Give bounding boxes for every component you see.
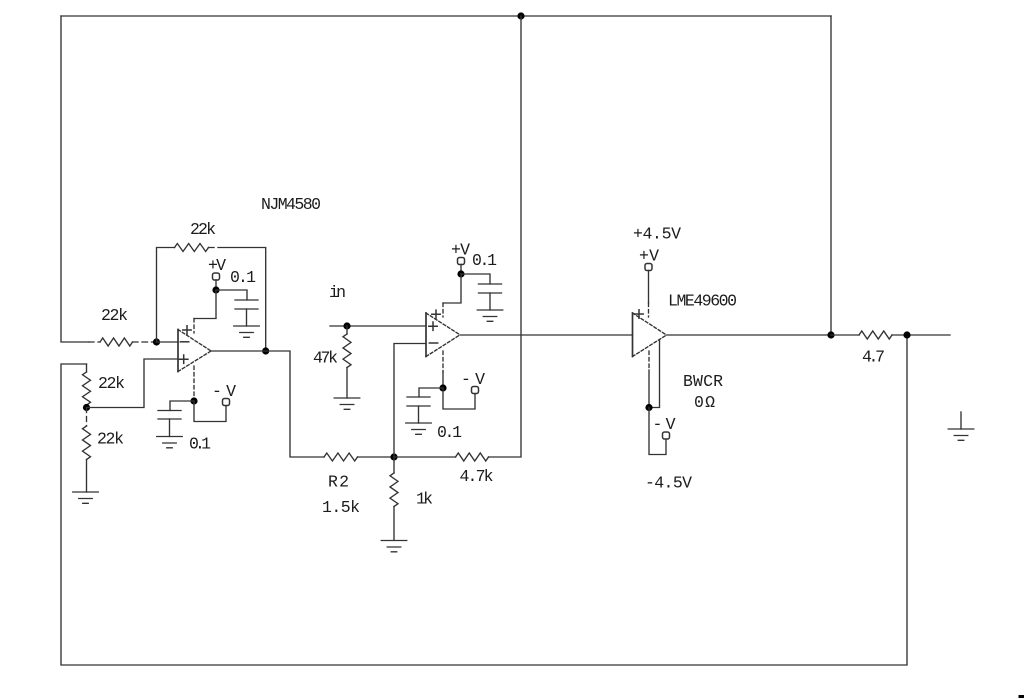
wire feedback lead <box>209 248 266 352</box>
node LME -V <box>645 404 652 411</box>
corner mark <box>1019 695 1024 698</box>
node op1 +V <box>212 286 219 293</box>
port -V LME <box>663 432 670 439</box>
ground output reference <box>960 412 962 429</box>
node R2/1k/4.7k junction <box>390 453 397 460</box>
op-amp U1A NJM4580 <box>177 330 179 372</box>
wire 1k to ground <box>393 507 395 541</box>
resistor 4.7k <box>456 453 489 461</box>
op1 inverting mark <box>180 341 188 343</box>
wire LME BW pin <box>649 340 660 408</box>
svg-text:- V: - V <box>653 415 676 434</box>
wire node to cap C2 <box>170 401 194 411</box>
svg-text:in: in <box>329 283 346 302</box>
op2 supply pin dashed bottom <box>442 351 444 372</box>
wire feedback up <box>157 248 175 343</box>
wire output stub <box>907 334 950 336</box>
op2 non-inverting mark <box>429 322 437 330</box>
node op2 -V <box>439 384 446 391</box>
node op1 output <box>262 347 269 354</box>
LME supply pin dashed bottom <box>648 351 650 370</box>
op1 supply pin dashed bottom <box>193 366 195 401</box>
svg-text:+V: +V <box>639 247 659 266</box>
node input 47k tap <box>343 322 350 329</box>
svg-text:NJM4580: NJM4580 <box>261 195 321 214</box>
op2 V+ mark <box>432 310 440 318</box>
wire dashed divider lead <box>86 408 88 427</box>
node op1 inverting input <box>153 338 160 345</box>
wire to op1 inverting pin <box>157 341 179 343</box>
wire dashed lead right of 22k <box>133 341 157 343</box>
wire to bypass cap C3 <box>461 274 490 284</box>
wire to 4.7 resistor <box>831 334 859 336</box>
wire top feedback bus <box>61 15 831 17</box>
resistor 22k feedback <box>175 244 209 252</box>
wire divider to ground <box>86 460 88 493</box>
wire -V port U <box>443 388 475 409</box>
wire left vertical top to inverting 22k <box>61 16 89 342</box>
ground op1 +V cap <box>234 326 260 337</box>
svg-text:0.1: 0.1 <box>472 251 497 270</box>
capacitor 0.1 op1 -V <box>158 411 181 420</box>
svg-text:0.1: 0.1 <box>437 423 462 442</box>
LME supply pin dashed top <box>648 303 650 317</box>
wire +V to buffer <box>648 271 650 304</box>
resistor 22k divider upper <box>86 364 88 408</box>
svg-text:0.1: 0.1 <box>189 435 211 454</box>
op-amp U1B NJM4580 <box>425 313 427 357</box>
wire port to node <box>460 265 462 275</box>
svg-text:47k: 47k <box>313 349 338 368</box>
svg-text:4.7k: 4.7k <box>460 467 494 486</box>
wire cap to ground <box>489 293 491 310</box>
wire buffer output <box>667 334 832 336</box>
wire node up to op2 inverting <box>394 344 426 458</box>
svg-text:4.7: 4.7 <box>862 348 885 367</box>
wire -V port U <box>194 401 226 422</box>
svg-text:LME49600: LME49600 <box>668 292 737 311</box>
svg-text:22k: 22k <box>190 220 216 239</box>
op1 V+ mark <box>183 326 191 334</box>
node output <box>903 331 910 338</box>
LME V+ mark <box>635 310 643 318</box>
resistor 22k divider lower <box>83 426 91 460</box>
capacitor 0.1 op2 +V <box>479 284 502 293</box>
svg-text:22k: 22k <box>97 430 124 449</box>
svg-text:+V: +V <box>208 256 226 275</box>
wire -V port U <box>649 408 666 455</box>
wire LME -V pin <box>648 370 650 408</box>
wire op2 output to buffer input <box>460 334 633 336</box>
resistor 4.7 output <box>859 331 892 339</box>
svg-text:0Ω: 0Ω <box>694 393 715 412</box>
svg-text:1k: 1k <box>416 490 433 509</box>
capacitor 0.1 op1 +V <box>235 300 258 309</box>
wire +V step to op2 <box>443 274 461 303</box>
resistor R2 1.5k <box>324 453 358 461</box>
node op2 +V <box>457 270 464 277</box>
op2 inverting mark <box>429 342 437 344</box>
op1 non-inverting mark <box>180 355 188 363</box>
svg-text:0.1: 0.1 <box>230 268 256 287</box>
node op1 -V <box>190 397 197 404</box>
ground 47k <box>334 398 360 409</box>
ground op1 -V cap <box>157 437 183 448</box>
node LME output <box>827 331 834 338</box>
port +V op1 <box>213 273 220 280</box>
svg-text:22k: 22k <box>101 306 128 325</box>
wire cap to ground <box>246 309 248 326</box>
svg-text:1.5k: 1.5k <box>322 498 360 517</box>
ground 1k <box>381 541 407 552</box>
ground op2 -V cap <box>406 423 432 434</box>
resistor 1k <box>393 457 395 473</box>
wire right vertical from top bus to LME output <box>830 16 832 335</box>
wire input in <box>330 325 426 327</box>
node top tap <box>517 12 524 19</box>
wire op2 -V pin <box>442 372 444 388</box>
ground op2 +V cap <box>477 310 503 321</box>
wire 4.7 to output node <box>892 334 907 336</box>
wire op1 output <box>211 351 324 457</box>
op2 supply pin dashed top <box>442 303 444 317</box>
svg-text:- V: - V <box>212 382 236 401</box>
capacitor 0.1 op2 -V <box>407 397 430 406</box>
port -V op1 <box>223 399 230 406</box>
svg-text:22k: 22k <box>98 374 125 393</box>
wire cap to ground <box>418 406 420 423</box>
wire bottom loop from output to divider <box>61 335 907 665</box>
wire 47k to ground <box>346 368 348 399</box>
port +V LME <box>645 264 652 271</box>
buffer U2 LME49600 <box>632 313 634 357</box>
port -V op2 <box>472 387 479 394</box>
wire cap to ground <box>169 419 171 437</box>
resistor 22k input <box>100 338 132 346</box>
svg-text:BWCR: BWCR <box>683 372 723 391</box>
wire R2 to node <box>358 456 395 458</box>
resistor 47k <box>346 326 348 334</box>
wire node to cap C4 <box>419 388 443 397</box>
node divider <box>83 404 90 411</box>
op1 supply pin dashed top <box>193 319 195 334</box>
port +V op2 <box>458 258 465 265</box>
wire divider to op1 non-inverting <box>87 359 179 408</box>
wire dashed lead left of 22k <box>89 341 100 343</box>
svg-text:+V: +V <box>451 241 470 260</box>
wire vertical tap to 4.7k <box>489 16 522 457</box>
svg-text:-4.5V: -4.5V <box>645 474 692 493</box>
wire node to 4.7k <box>394 456 456 458</box>
wire to bypass cap C1 <box>216 290 247 300</box>
svg-text:- V: - V <box>461 370 485 389</box>
wire +V step to op1 <box>194 290 216 319</box>
svg-text:+4.5V: +4.5V <box>633 225 681 244</box>
wire port to node <box>215 280 217 290</box>
svg-text:R2: R2 <box>328 473 349 492</box>
ground divider <box>73 492 99 503</box>
